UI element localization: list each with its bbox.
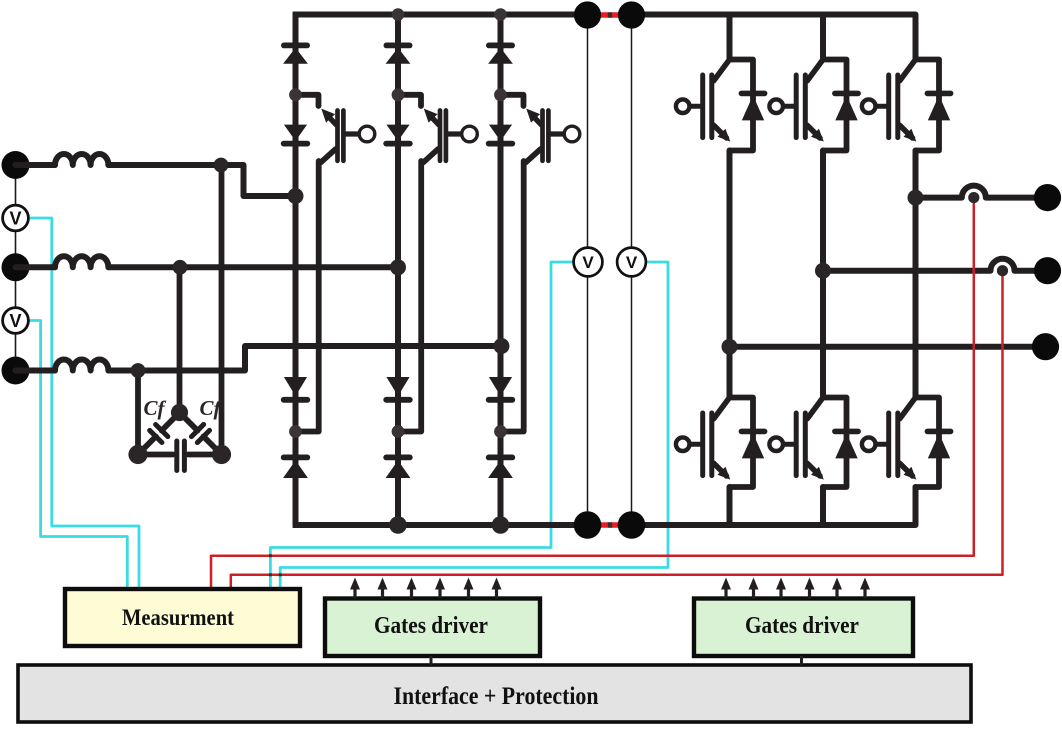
svg-text:Measurment: Measurment	[122, 605, 234, 631]
wire DC-link sense V+ (cyan) to Measurement	[270, 262, 574, 591]
inductor Lc	[55, 360, 108, 371]
IGBT T1t collector	[714, 60, 729, 80]
wire IGBT S3 emitter stub	[501, 95, 524, 106]
junction leg 1 lower	[289, 425, 302, 438]
capacitor Cf (B-C branch)	[138, 452, 173, 458]
gate signal arrow 2-4	[808, 587, 811, 599]
wire phase B to rectifier leg 2	[16, 264, 399, 270]
diode D31 (top, cathode up)	[489, 43, 512, 49]
inductor Lb	[55, 256, 108, 267]
inductor La	[55, 154, 108, 165]
wire inverter leg 3 bottom	[913, 487, 919, 525]
wire DC-link sense V- (cyan) to Measurement	[280, 262, 668, 591]
IGBT T3b body bars	[886, 413, 891, 476]
diode DF3t (freewheel)	[927, 91, 950, 97]
svg-text:Cf: Cf	[200, 396, 223, 420]
IGBT T1t gate terminal	[676, 99, 690, 113]
IGBT S3 gate lead	[550, 131, 562, 136]
junction cyan-red crossing 1	[269, 554, 272, 557]
wire phase C to rectifier leg 3	[16, 346, 501, 371]
IGBT T1b gate terminal	[676, 437, 690, 451]
junction leg 2 phase tap	[390, 259, 406, 275]
svg-text:V: V	[582, 253, 594, 272]
voltmeter V1 (phase A-B)	[3, 205, 29, 231]
IGBT T3t gate terminal	[862, 99, 876, 113]
gate signal arrow 2-1	[724, 587, 727, 599]
gate signal arrow 1-6	[495, 587, 498, 599]
junction leg 2 DC- rail	[389, 516, 407, 534]
junction inverter leg 2 output	[815, 263, 831, 279]
wire current-sense Iv (red) to Measurement	[231, 271, 1003, 591]
Interface + Protection box	[18, 665, 971, 722]
IGBT T2t gate lead	[785, 104, 796, 109]
junction leg 3 DC- rail	[492, 516, 510, 534]
shunt tick DC-	[608, 522, 612, 527]
junction inverter leg 1 output	[722, 339, 738, 355]
IGBT T2b gate lead	[785, 442, 796, 447]
junction leg 3 DC+ rail	[494, 8, 507, 21]
svg-text:V: V	[626, 253, 638, 272]
gate signal arrow 1-5	[467, 587, 470, 599]
diode D22 (cathode down)	[386, 125, 409, 141]
IGBT T1b emitter arrow	[714, 463, 727, 476]
diode D14 (cathode up)	[284, 454, 308, 460]
junction leg 1 upper	[289, 88, 302, 101]
svg-text:V: V	[9, 311, 21, 331]
diode DF2b (freewheel)	[835, 429, 858, 435]
junction phase B / Cf	[173, 260, 188, 275]
svg-text:V: V	[9, 208, 21, 228]
IGBT S1 gate terminal	[359, 126, 375, 142]
wire current-sense Iu (red) to Measurement	[211, 198, 974, 591]
wire voltage-sense Va (cyan) to Measurement	[26, 218, 139, 591]
gate signal arrow 2-3	[779, 587, 782, 599]
IGBT T2b gate terminal	[769, 437, 783, 451]
IGBT T2b body bars	[794, 413, 799, 476]
gate signal arrow 1-4	[438, 587, 441, 599]
wire input neutral link	[15, 165, 17, 371]
Gates driver box 1	[325, 599, 540, 657]
wire phase B tap to Cf	[177, 267, 183, 412]
IGBT T2t gate terminal	[769, 99, 783, 113]
IGBT T1b collector	[714, 398, 729, 419]
diode DF1t (freewheel)	[741, 91, 764, 97]
IGBT T3b emitter arrow	[900, 463, 913, 476]
wire IGBT S1 collector	[321, 149, 336, 163]
IGBT T3t gate lead	[877, 104, 888, 109]
wire inverter leg 1 middle	[727, 151, 733, 398]
gate signal arrow 1-3	[410, 587, 413, 599]
wire inverter leg 2 bottom	[820, 487, 826, 525]
IGBT T2b collector	[807, 398, 822, 419]
junction leg 2 upper	[392, 88, 405, 101]
IGBT S3 body bars	[540, 111, 545, 161]
gate signal arrow 1-2	[381, 587, 384, 599]
diode D33 (cathode down)	[489, 377, 512, 396]
capacitor Cf (A-B branch)	[132, 406, 186, 460]
wire output U	[916, 186, 1042, 198]
wire output W	[730, 344, 1040, 350]
wire voltage-sense Vb (cyan) to Measurement	[26, 321, 127, 592]
IGBT S1 body bars	[335, 111, 340, 161]
junction cyan-red crossing 2	[269, 573, 272, 576]
wire inverter leg 2 upper	[820, 15, 826, 60]
wire DC-link sense line -	[631, 15, 633, 525]
diode D32 (cathode down)	[489, 125, 512, 141]
voltmeter V3 (DC link)	[574, 248, 603, 277]
diode D34 (cathode up)	[489, 454, 513, 460]
IGBT T2t collector	[807, 60, 822, 80]
IGBT T3t body bars	[886, 75, 891, 138]
junction inverter leg 3 output	[908, 190, 924, 206]
gate signal arrow 2-5	[835, 587, 838, 599]
IGBT S3 gate terminal	[564, 126, 580, 142]
shunt link DC- (red)	[597, 522, 623, 527]
node DC+ left	[574, 1, 601, 28]
node DC- left	[574, 511, 602, 539]
wire phase A to inductor	[16, 162, 56, 168]
IGBT T3t collector	[900, 60, 915, 80]
input terminal phase C	[2, 357, 30, 385]
wire DC+ rail (rectifier)	[293, 12, 598, 18]
diode DF3b (freewheel)	[927, 429, 950, 435]
diode D23 (cathode down)	[386, 377, 409, 396]
wire DC- rail (rectifier)	[293, 522, 598, 528]
junction leg 3 lower	[494, 425, 507, 438]
wire Gates driver 2 to Interface	[800, 656, 803, 665]
current sensor Iv	[997, 265, 1008, 276]
wire inverter leg 3 upper	[913, 15, 919, 60]
svg-text:Gates driver: Gates driver	[745, 612, 859, 639]
wire DC- rail (inverter)	[621, 522, 916, 528]
diode D11 (top, cathode up)	[284, 43, 307, 49]
wire IGBT T3t / diode loop	[916, 60, 940, 151]
gate signal arrow 1-1	[353, 587, 356, 599]
output terminal V	[1034, 257, 1061, 284]
wire IGBT S3 collector	[526, 149, 541, 163]
wire Gates driver 1 to Interface	[430, 656, 433, 665]
gate signal arrow 2-2	[752, 587, 755, 599]
junction leg 1 phase tap	[288, 188, 304, 204]
IGBT T3b gate terminal	[862, 437, 876, 451]
IGBT T2t body bars	[794, 75, 799, 138]
junction phase C / Cf	[131, 363, 146, 378]
IGBT T1t gate lead	[691, 104, 702, 109]
Gates driver box 2	[694, 599, 913, 657]
wire inverter leg 3 middle	[913, 151, 919, 398]
output terminal W	[1032, 333, 1059, 360]
diode DF2t (freewheel)	[835, 91, 858, 97]
IGBT S1 emitter arrow	[321, 109, 335, 123]
diode DF1b (freewheel)	[741, 429, 764, 435]
IGBT T1t body bars	[700, 75, 705, 138]
IGBT T2t emitter arrow	[807, 125, 820, 138]
node Cf bottom-left	[128, 445, 147, 464]
node DC+ right	[618, 1, 645, 28]
IGBT S2 body bars	[438, 111, 443, 161]
wire rectifier leg 1	[293, 15, 299, 526]
wire IGBT S2 collector	[423, 149, 438, 163]
wire inverter leg 2 middle	[820, 151, 826, 398]
IGBT S2 gate lead	[448, 131, 460, 136]
junction leg 3 phase tap	[494, 338, 510, 354]
capacitor Cf (A-C branch)	[173, 406, 227, 460]
wire IGBT S2 emitter stub	[398, 95, 421, 106]
current sensor Iu	[968, 192, 979, 203]
IGBT T3b gate lead	[877, 442, 888, 447]
wire IGBT T3b / diode loop	[916, 398, 940, 488]
wire DC+ rail (inverter)	[621, 12, 916, 18]
gate signal arrow 2-6	[863, 587, 866, 599]
wire DC-link sense line +	[587, 15, 589, 525]
diode D24 (cathode up)	[386, 454, 410, 460]
diode D21 (top, cathode up)	[386, 43, 409, 49]
shunt link DC+ (red)	[597, 12, 623, 17]
junction leg 2 DC+ rail	[392, 8, 405, 21]
wire phase C tap to Cf	[135, 371, 141, 455]
IGBT T3b collector	[900, 398, 915, 419]
voltmeter V4 (DC link)	[617, 248, 646, 277]
wire rectifier leg 3	[498, 15, 504, 526]
svg-text:Cf: Cf	[144, 396, 167, 420]
junction leg 3 upper	[494, 88, 507, 101]
wire rectifier leg 2	[395, 15, 401, 526]
input terminal phase A	[2, 151, 30, 179]
Measurement box	[65, 589, 300, 646]
wire IGBT S1 emitter stub	[296, 95, 319, 106]
wire output V	[823, 259, 1042, 271]
junction phase A / Cf	[214, 158, 229, 173]
wire IGBT T2b / diode loop	[823, 398, 847, 488]
node DC- right	[618, 511, 646, 539]
diode D12 (cathode down)	[284, 125, 307, 141]
IGBT T1b body bars	[700, 413, 705, 476]
node Cf top	[171, 404, 188, 421]
shunt tick DC+	[608, 12, 612, 17]
wire inverter leg 1 bottom	[727, 487, 733, 525]
voltmeter V2 (phase B-C)	[3, 308, 29, 334]
IGBT S1 gate lead	[345, 131, 357, 136]
IGBT S2 emitter arrow	[424, 109, 438, 123]
svg-text:Interface + Protection: Interface + Protection	[394, 681, 599, 710]
wire phase A to rectifier leg 1	[108, 165, 295, 196]
IGBT T1t emitter arrow	[714, 125, 727, 138]
IGBT T2b emitter arrow	[807, 463, 820, 476]
output terminal U	[1034, 184, 1061, 211]
IGBT S2 gate terminal	[462, 126, 478, 142]
junction cyan-red crossing 3	[279, 573, 282, 576]
junction leg 2 lower	[392, 425, 405, 438]
node Cf bottom-right	[212, 445, 231, 464]
IGBT T1b gate lead	[691, 442, 702, 447]
svg-text:Gates driver: Gates driver	[374, 612, 488, 639]
input terminal phase B	[2, 253, 30, 281]
wire IGBT T2t / diode loop	[823, 60, 847, 151]
IGBT T3t emitter arrow	[900, 125, 913, 138]
wire IGBT T1b / diode loop	[730, 398, 754, 488]
wire inverter leg 1 upper	[727, 15, 733, 60]
wire IGBT T1t / diode loop	[730, 60, 754, 151]
IGBT S3 emitter arrow	[526, 109, 540, 123]
wire phase A tap to Cf	[219, 165, 225, 455]
diode D13 (cathode down)	[284, 377, 307, 396]
